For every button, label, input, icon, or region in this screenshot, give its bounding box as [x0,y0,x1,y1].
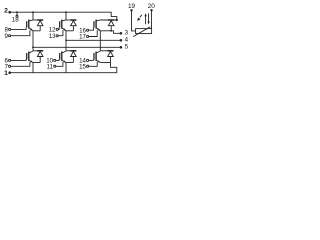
node D3 anode junction [110,30,112,32]
wire thermistor right lead [151,11,153,28]
wire emitter node leg3 bottom [100,62,110,64]
wire P bus (pin 2 rail) [10,12,117,20]
wire thermistor left lead [132,11,136,31]
terminal pin 18 [16,15,18,17]
wire emitter node leg2 top [66,30,73,32]
transistor Q3 (top leg3 IGBT) [93,21,95,27]
wire emitter node leg2 bottom [66,62,73,64]
terminal pin 1 [8,71,11,74]
wire output pin5 (phase U tap) [33,46,121,48]
diode D5 (bottom leg2) [70,50,76,52]
thermistor arrow down-left [140,15,142,17]
wire emitter node leg3 top [100,30,113,32]
terminal pin 5 [120,46,123,49]
svg-text:13: 13 [49,33,56,40]
wire collector drop leg2 top [65,12,67,20]
node phase V tap junction [65,39,67,41]
wire emitter node leg1 bottom [33,62,40,64]
wire output pin3 (phase W tap) [114,31,121,34]
wire collector node leg1 top [33,19,43,21]
terminal pin 2 [8,11,11,14]
wire emitter drop leg1 to N bus [32,63,34,73]
thermistor arrow up [145,16,147,25]
wire emitter node leg1 top [33,30,40,32]
svg-text:17: 17 [79,34,86,41]
transistor Q4 (bottom leg1 IGBT) [26,53,28,60]
transistor Q1 (top leg1 IGBT) [26,21,28,27]
wire emitter drop leg2 to N bus [65,63,67,73]
terminal pin 3 [120,32,123,35]
thermistor TH1 diagonal [133,27,150,37]
wire collector drop leg1 top [32,12,34,20]
diode D1 (top leg1) [37,19,43,21]
thermistor TH1 body [136,29,152,34]
wire collector node leg2 top [66,19,76,21]
svg-text:20: 20 [148,3,156,10]
node P bus junction leg1 [32,11,34,13]
svg-text:4: 4 [125,37,129,44]
node P bus junction leg2 [65,11,67,13]
diode D4 (bottom leg1) [37,50,43,52]
wire emitter zigzag leg3 to N bus [111,63,117,73]
wire phase V vertical leg2 [65,31,67,51]
svg-text:9: 9 [5,33,9,40]
diode D6 (bottom leg3) [108,50,114,52]
diode D2 (top leg2) [70,19,76,21]
transistor Q2 (top leg2 IGBT) [59,21,61,27]
wire collector node leg2 bottom [66,50,76,52]
wire N bus (pin 1 rail) [10,72,117,74]
wire collector node leg3 top [100,19,117,21]
node P bus junction pin18 stub [16,11,18,13]
wire phase U vertical leg1 [32,31,34,51]
svg-text:2: 2 [4,8,8,15]
wire collector node leg1 bottom [33,50,43,52]
transistor Q5 (bottom leg2 IGBT) [59,53,61,60]
node collector rail leg3 junction [116,19,118,21]
svg-text:19: 19 [128,3,136,10]
svg-text:18: 18 [12,16,19,23]
wire phase W vertical leg3 [99,31,101,51]
diode D3 (top leg3) [108,19,114,21]
svg-text:5: 5 [125,44,129,51]
wire output pin4 (phase V tap) [66,39,121,41]
svg-text:1: 1 [4,70,8,77]
svg-text:15: 15 [79,64,86,71]
pin 18 stub wire [16,12,18,15]
transistor Q6 (bottom leg3 IGBT) [93,53,95,60]
wire collector node leg3 bottom [100,50,113,52]
svg-text:3: 3 [125,30,129,37]
terminal pin 4 [120,39,123,42]
node phase U tap junction [32,46,34,48]
thermistor arrow down [148,13,150,22]
svg-text:11: 11 [47,64,54,71]
